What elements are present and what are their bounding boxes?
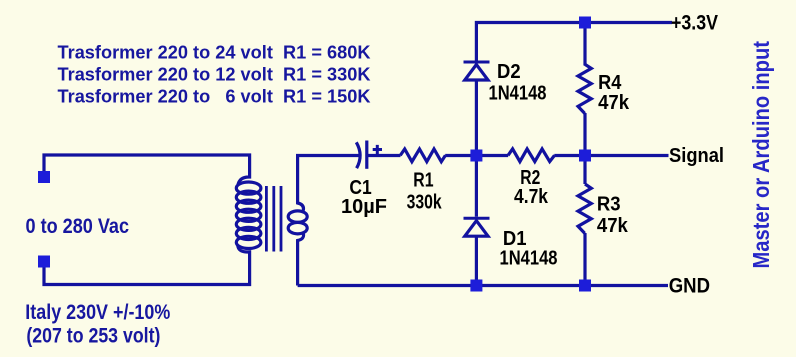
svg-text:0 to 280 Vac: 0 to 280 Vac <box>26 215 130 238</box>
svg-text:4.7k: 4.7k <box>514 186 549 208</box>
svg-text:GND: GND <box>669 275 710 298</box>
svg-text:Trasformer 220 to 6 volt R1: Trasformer 220 to 6 volt R1 = 150K <box>58 86 371 106</box>
svg-text:330k: 330k <box>407 191 443 213</box>
svg-text:1N4148: 1N4148 <box>500 248 558 270</box>
svg-text:47k: 47k <box>597 215 629 237</box>
svg-text:1N4148: 1N4148 <box>489 83 547 105</box>
svg-text:D2: D2 <box>497 61 521 83</box>
svg-text:R4: R4 <box>598 72 622 94</box>
svg-text:10µF: 10µF <box>341 196 387 218</box>
svg-text:Trasformer 220 to 24 volt R1: Trasformer 220 to 24 volt R1 = 680K <box>58 43 371 63</box>
svg-text:(207 to 253 volt): (207 to 253 volt) <box>26 324 160 347</box>
svg-text:Signal: Signal <box>669 145 724 167</box>
svg-text:Italy 230V +/-10%: Italy 230V +/-10% <box>25 301 170 324</box>
svg-text:R3: R3 <box>597 194 621 216</box>
svg-text:Trasformer 220 to 12 volt R1: Trasformer 220 to 12 volt R1 = 330K <box>58 65 371 85</box>
svg-text:Master or Arduino input: Master or Arduino input <box>748 41 774 269</box>
svg-text:R1: R1 <box>413 170 433 192</box>
svg-text:+3.3V: +3.3V <box>671 12 718 35</box>
svg-text:47k: 47k <box>598 92 630 114</box>
